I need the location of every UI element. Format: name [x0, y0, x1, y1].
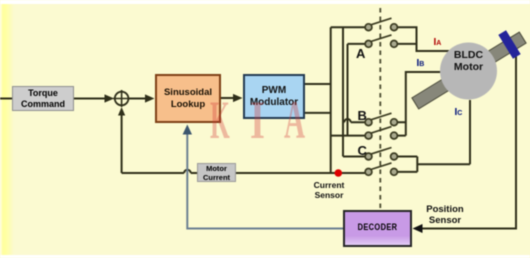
- wire current feedback horizontal with hop: [122, 170, 366, 173]
- wire pwm output 1: [305, 83, 331, 85]
- arrowhead into pwm modulator: [233, 94, 243, 102]
- pwm modulator box: [243, 74, 305, 119]
- switch C upper: [365, 148, 397, 160]
- arrowhead into decoder: [413, 224, 423, 233]
- bottom white margin: [0, 255, 530, 258]
- sinusoidal lookup box: [155, 74, 221, 123]
- wire position sensor: [420, 57, 516, 229]
- wire bus v2: [342, 27, 344, 156]
- wire stub upper C: [343, 156, 365, 158]
- switch A lower: [365, 35, 397, 47]
- decoder box: [343, 210, 412, 247]
- label phase A: [356, 46, 365, 61]
- wire torque box to summing junction: [74, 98, 106, 100]
- arrowhead into summing junction: [105, 94, 115, 102]
- wire stub lower B: [331, 135, 366, 137]
- wire bus v3: [347, 44, 349, 136]
- switch C lower: [365, 163, 397, 175]
- wire phase A right: [397, 27, 449, 51]
- label current IB: [417, 58, 425, 69]
- summing junction: [113, 90, 130, 107]
- wire torque input: [0, 98, 13, 100]
- arrowhead into sinusoidal lookup: [145, 94, 155, 102]
- wire phase C right: [397, 100, 470, 172]
- wire phase B right: [397, 72, 440, 136]
- switch B lower: [365, 127, 397, 139]
- wire sinusoidal to pwm: [221, 97, 236, 99]
- switch A upper: [365, 18, 397, 30]
- top white margin: [0, 0, 530, 4]
- label current IC: [455, 107, 463, 118]
- motor current label: [197, 163, 236, 182]
- dashed commutation line: [379, 8, 381, 209]
- wire stub lower A: [348, 43, 366, 45]
- label position sensor: [419, 204, 471, 227]
- wire pwm output 2: [305, 112, 331, 114]
- label phase C: [358, 143, 367, 158]
- wire current feedback vertical: [121, 112, 123, 173]
- KIA watermark: [209, 92, 211, 94]
- label current IA: [434, 37, 442, 48]
- switch B upper: [365, 113, 397, 125]
- position feedback wire (slate): [187, 133, 343, 229]
- wire summing junction to sinusoidal lookup: [128, 98, 147, 100]
- left yellow band: [0, 4, 14, 255]
- arrowhead feedback into summing junction bottom: [118, 107, 125, 116]
- wire bus v1: [330, 27, 332, 173]
- current sensor dot: [335, 169, 343, 177]
- arrowhead position feedback into sinusoidal: [183, 125, 192, 135]
- position sensor band on shaft: [498, 30, 520, 59]
- label phase B: [358, 108, 367, 123]
- label BLDC Motor: [440, 49, 497, 73]
- wire stub upper A: [331, 26, 366, 28]
- BLDC motor body: [440, 43, 497, 100]
- label current sensor: [305, 180, 353, 200]
- wire stub upper B: [343, 119, 365, 122]
- torque command box: [12, 86, 74, 111]
- motor shaft: [412, 32, 526, 109]
